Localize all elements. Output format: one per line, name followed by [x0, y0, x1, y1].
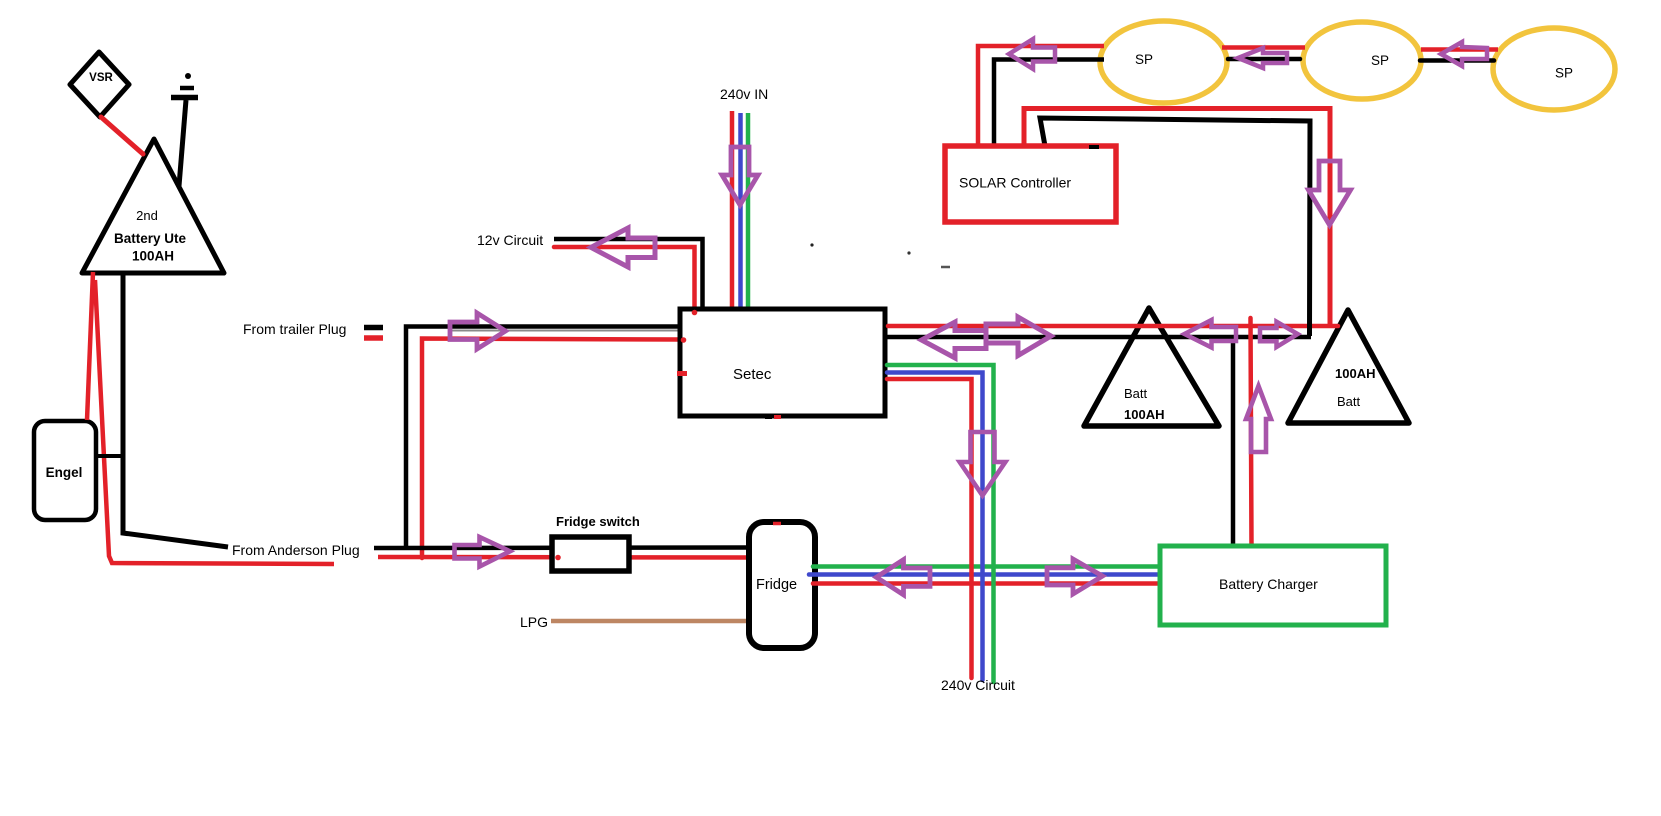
wire red main bus Setec to right battery	[888, 324, 1338, 329]
svg-text:From trailer Plug: From trailer Plug	[243, 321, 346, 337]
wire black bus down to battery charger	[1231, 337, 1236, 547]
trailer plug black dash	[364, 325, 383, 331]
svg-text:Battery Charger: Battery Charger	[1219, 576, 1318, 592]
svg-text:Engel: Engel	[46, 465, 83, 480]
wire black Anderson run to fridge	[374, 545, 750, 550]
stray dot 1	[810, 243, 813, 246]
switch Fridge switch (box covers wires)	[552, 537, 629, 571]
wire black from trailer plug to Setec and down	[406, 327, 684, 549]
fridge Fridge (rounded box)	[749, 522, 815, 648]
wire black solar controller loop to bus	[1040, 118, 1310, 336]
wires 240v out of Setec right: green, blue, red going down	[887, 365, 994, 682]
wire black main bus Setec to solar drop	[885, 335, 1311, 340]
svg-text:Setec: Setec	[733, 366, 772, 383]
svg-text:Batt: Batt	[1124, 386, 1148, 401]
arrow left left of SP1	[1009, 39, 1055, 69]
solar controller box	[945, 146, 1116, 222]
red tick on fridge top	[773, 522, 781, 526]
wire black SP1 to solar controller	[994, 60, 1104, 147]
wire red 12v circuit to Setec top	[554, 247, 695, 313]
arrow right on trailer plug wires	[450, 313, 506, 349]
wire black SP1-SP2	[1228, 57, 1300, 62]
arrow down on solar drop	[1309, 161, 1351, 225]
red stub at switch left edge	[555, 555, 561, 561]
arrow left on 12v circuit	[591, 228, 655, 267]
wire black 12v circuit to Setec top	[554, 239, 703, 310]
svg-text:12v Circuit: 12v Circuit	[477, 232, 543, 248]
trailer plug red dash	[364, 335, 383, 341]
Setec box	[680, 309, 885, 416]
black tick on Setec bottom	[765, 414, 772, 419]
arrow left on main bus	[922, 322, 987, 358]
svg-text:Fridge switch: Fridge switch	[556, 514, 640, 529]
arrow up on charger red riser	[1246, 386, 1271, 452]
svg-text:240v IN: 240v IN	[720, 86, 768, 102]
svg-text:Fridge: Fridge	[756, 577, 797, 593]
antenna / chassis symbol above 2nd battery	[171, 73, 198, 186]
wire red VSR to 2nd battery	[101, 117, 143, 154]
arrow down on 240v circuit drop	[960, 432, 1006, 496]
red cap of trailer wire on Setec left	[681, 337, 687, 343]
svg-text:SP: SP	[1555, 66, 1573, 81]
wire red SP1-SP2	[1222, 45, 1305, 50]
arrow left between SP2 and SP3	[1441, 42, 1487, 66]
arrow left on fridge bundle	[876, 560, 930, 595]
wire red SP1 to solar controller	[978, 46, 1104, 146]
black tick on solar controller top	[1089, 145, 1099, 149]
wire black SP2-SP3	[1420, 58, 1494, 63]
arrow right on Anderson wires	[455, 537, 511, 567]
svg-text:SP: SP	[1135, 52, 1153, 67]
svg-text:100AH: 100AH	[132, 249, 174, 264]
fridge Engel (rounded box)	[34, 421, 96, 520]
solar panel SP3 (ellipse)	[1493, 28, 1615, 110]
wire red fridge to battery charger	[813, 581, 1161, 586]
svg-text:VSR: VSR	[89, 72, 113, 84]
wire red SP2-SP3	[1421, 47, 1498, 52]
svg-text:SP: SP	[1371, 53, 1389, 68]
wire black 2nd battery down to Anderson plug	[123, 273, 228, 547]
svg-text:100AH: 100AH	[1124, 407, 1164, 422]
wire red from trailer plug to Setec and down	[422, 339, 681, 559]
wire red 2nd battery down to Anderson plug run	[95, 280, 334, 564]
wire brown LPG to fridge	[551, 619, 749, 624]
battery 2nd Battery Ute 100AH (triangle)	[82, 139, 224, 273]
wire red Anderson run to fridge	[378, 555, 750, 560]
battery triangle B1 (Batt 100AH, left)	[1084, 308, 1219, 426]
arrow left between SP1 and SP2	[1238, 48, 1287, 68]
wire red battery charger up across bus	[1251, 318, 1252, 547]
red tick on Setec bottom	[774, 415, 781, 419]
shapes drawn first so bus wires can cross over them	[1084, 308, 1409, 426]
wire gray thin into Setec	[450, 330, 686, 332]
red tick on Setec left edge	[677, 371, 687, 376]
svg-text:Battery Ute: Battery Ute	[114, 231, 187, 246]
arrow down on 240v IN lines	[722, 147, 758, 205]
solar panel SP1 (ellipse)	[1100, 21, 1227, 103]
svg-text:2nd: 2nd	[136, 208, 158, 223]
solar panel SP2 (ellipse)	[1303, 22, 1421, 99]
red cap of 12v wire on Setec top	[692, 310, 698, 316]
relay VSR (diamond)	[70, 52, 129, 117]
svg-text:240v Circuit: 240v Circuit	[941, 677, 1015, 693]
wire blue fridge to battery charger	[809, 572, 1161, 577]
wire red 2nd battery to Engel	[87, 272, 93, 420]
svg-text:100AH: 100AH	[1335, 366, 1375, 381]
battery charger box	[1160, 546, 1386, 625]
svg-text:LPG: LPG	[520, 614, 548, 630]
battery triangle B2 (100AH Batt, right)	[1288, 310, 1409, 423]
arrow right between batteries	[1260, 322, 1298, 347]
svg-text:Batt: Batt	[1337, 394, 1361, 409]
arrow right to battery charger	[1047, 559, 1103, 594]
wire red solar controller loop to bus	[1024, 109, 1330, 326]
arrow left between batteries	[1185, 320, 1237, 348]
wire black Engel stub	[96, 454, 124, 458]
stray dot 2	[907, 251, 910, 254]
wire green fridge to battery charger	[813, 564, 1161, 569]
svg-text:SOLAR Controller: SOLAR Controller	[959, 175, 1071, 191]
svg-text:From Anderson Plug: From Anderson Plug	[232, 542, 360, 558]
wires 240v IN drop to Setec: red, blue, green	[730, 111, 735, 311]
arrow right on main bus	[986, 317, 1051, 356]
stray dash	[941, 266, 950, 269]
